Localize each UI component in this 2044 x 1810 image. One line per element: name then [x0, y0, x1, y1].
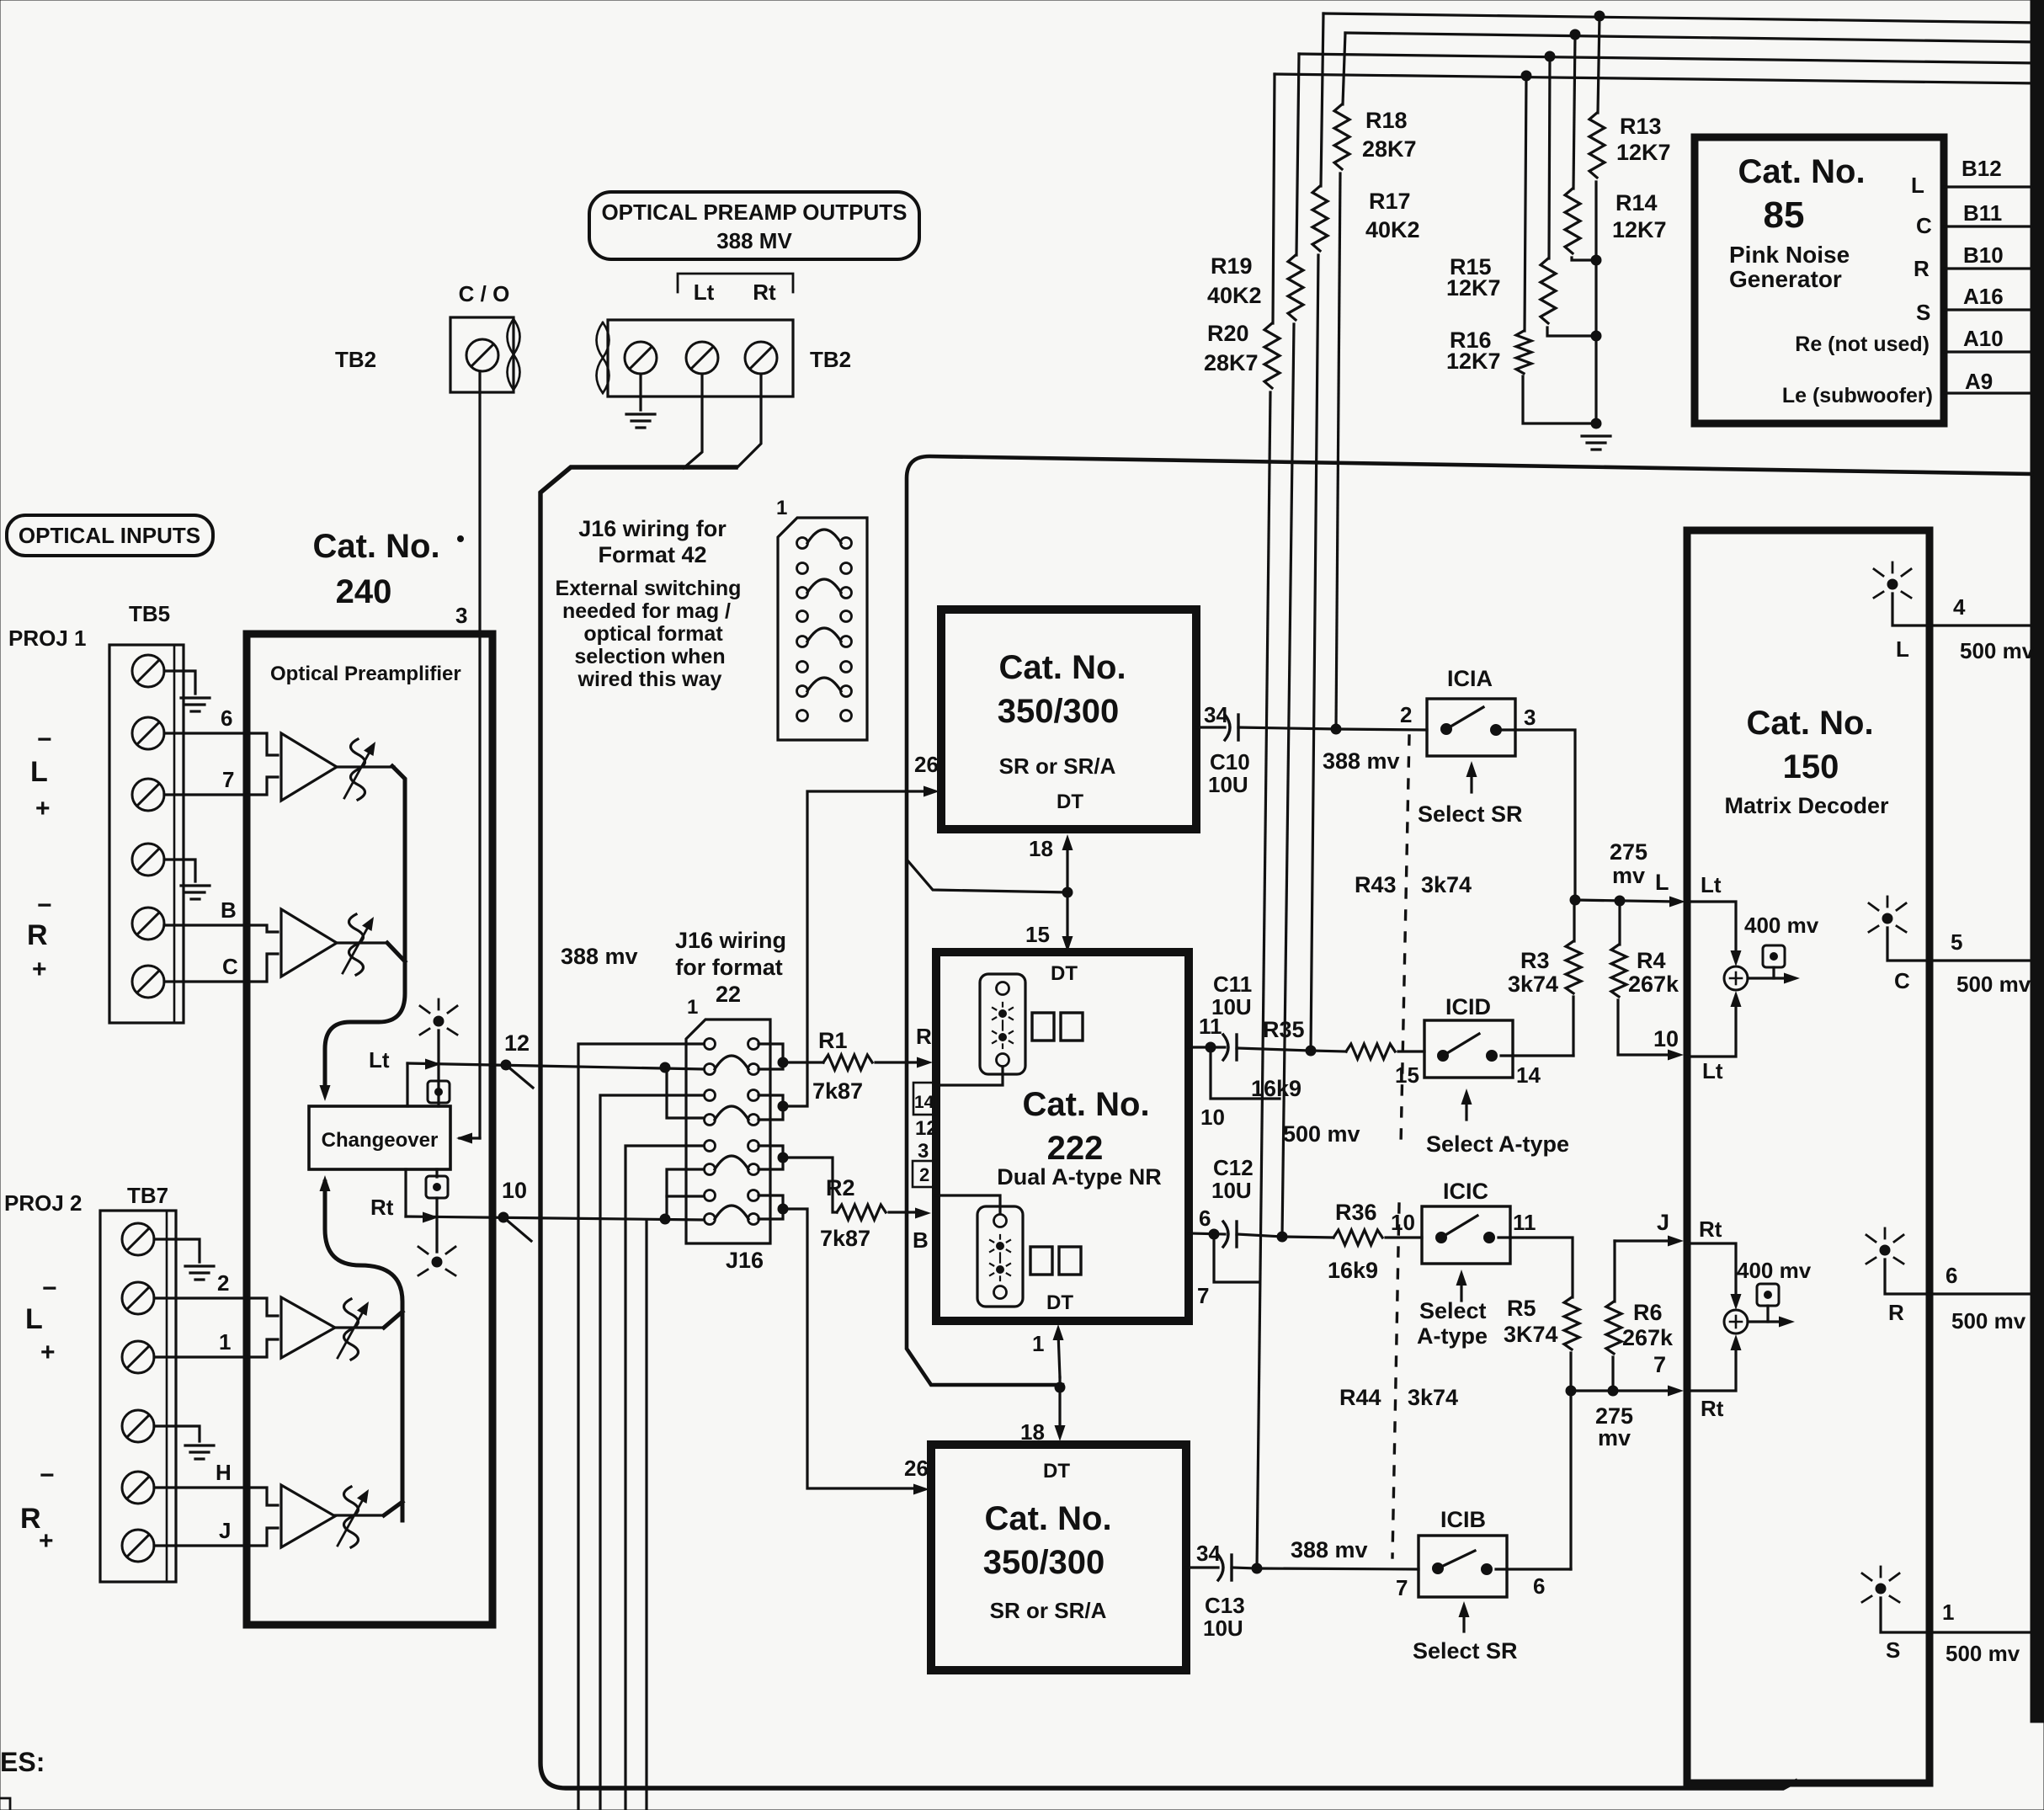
svg-text:Format 42: Format 42 [598, 542, 706, 567]
LED Lt changeover [434, 1016, 444, 1026]
wire B input internal [936, 1195, 1000, 1213]
connector J16-format42 pin row 4 [797, 611, 808, 622]
capacitor C12 [1223, 1222, 1228, 1247]
terminal screw TB5-3 [132, 779, 164, 811]
node J16 26b-net output [778, 1204, 788, 1214]
summing node Lt channel [1686, 902, 1736, 956]
svg-text:J16 wiring: J16 wiring [675, 928, 786, 953]
svg-text:R: R [1888, 1300, 1904, 1325]
wire TB7-3 pin1 [154, 1355, 247, 1358]
terminal screw TB5-2 [132, 717, 164, 749]
wire Lt node to Cat150 [1575, 900, 1675, 902]
LED output L [1887, 579, 1898, 589]
jumper arc J16 [715, 1156, 748, 1169]
svg-text:5: 5 [1951, 929, 1962, 955]
terminal screw TB7-1 [122, 1223, 154, 1255]
wire ICIC out down through R5 [1498, 1238, 1573, 1297]
svg-text:H: H [216, 1460, 232, 1485]
svg-text:12K7: 12K7 [1446, 349, 1501, 374]
wire J16 row3 left to vertical [600, 1095, 704, 1810]
wire TB7-5 pinH [154, 1486, 247, 1488]
wire Lt riser to row4 [667, 1067, 704, 1118]
node R5 bottom [1566, 1386, 1576, 1396]
svg-text:6: 6 [1533, 1573, 1545, 1599]
svg-text:500 mv: 500 mv [1960, 638, 2035, 663]
slide switch S1 [980, 974, 1025, 1074]
terminal screw TB5-1 [132, 655, 164, 687]
wire LED Rt stem [435, 1169, 438, 1177]
jumper arc J16-format42 [807, 678, 841, 691]
wire pin11 to C11 [1189, 1046, 1225, 1048]
svg-text:14: 14 [914, 1093, 934, 1112]
svg-text:R18: R18 [1365, 108, 1408, 133]
wire 26-net to top box [783, 791, 929, 1106]
resistor R14 [1565, 189, 1580, 253]
terminal screw TB7-5 [122, 1472, 154, 1504]
resistor R16 [1516, 331, 1531, 374]
svg-text:6: 6 [1946, 1263, 1957, 1288]
wire pin1-18 link [1053, 1324, 1064, 1340]
terminal screw TB5-5 [132, 908, 164, 940]
svg-text:ES:: ES: [0, 1747, 45, 1777]
svg-text:Matrix Decoder: Matrix Decoder [1724, 793, 1889, 818]
svg-text:388 mv: 388 mv [1323, 748, 1400, 774]
svg-text:Cat. No.: Cat. No. [998, 649, 1126, 686]
slide switch S2 [977, 1206, 1023, 1307]
svg-text:R19: R19 [1211, 253, 1253, 279]
ground pink-noise divider [1582, 434, 1610, 437]
svg-text:1: 1 [776, 497, 787, 519]
node 388mv bottom [1252, 1563, 1262, 1573]
wire A3 output to thick riser [384, 1312, 402, 1328]
LED output S [1876, 1584, 1886, 1594]
wire J16 right jogs rows5-6 [759, 1146, 783, 1158]
svg-text:−: − [37, 726, 52, 753]
wire C10 to 388mv node [1238, 727, 1336, 729]
connector J16 pin row 8 [705, 1214, 716, 1225]
wire ICIB riser to 275mv node [1569, 1391, 1572, 1569]
resistor R6 and J wire [1615, 1239, 1674, 1242]
wire J16 right jogs rows3-4 [759, 1095, 783, 1106]
svg-text:150: 150 [1783, 748, 1839, 785]
svg-text:Generator: Generator [1729, 266, 1842, 292]
jumper arc J16-format42 [807, 530, 841, 543]
node Lt-12 [501, 1060, 511, 1070]
svg-text:500 mv: 500 mv [1946, 1641, 2020, 1666]
jumper arc J16-format42 [807, 579, 841, 593]
wire C13 to ICIB [1232, 1568, 1257, 1568]
svg-text:26: 26 [904, 1456, 929, 1481]
svg-text:22: 22 [716, 982, 741, 1007]
node J16 R1 output [778, 1057, 788, 1067]
wire C11 to R35 [1237, 1048, 1311, 1051]
resistor R1 [783, 1061, 823, 1063]
block changeover [309, 1106, 450, 1169]
summing node Rt channel [1686, 1243, 1736, 1300]
resistor R15 [1541, 258, 1556, 323]
block U240 Optical Preamplifier outline [247, 634, 492, 1625]
connector J16-format42 pin row 2 [797, 563, 808, 574]
svg-text:388 MV: 388 MV [716, 228, 792, 253]
svg-text:1: 1 [219, 1329, 231, 1355]
svg-text:needed for mag /: needed for mag / [562, 599, 731, 623]
node R4 top [1615, 896, 1625, 906]
wire Lt diagonal to bus [506, 1065, 533, 1088]
svg-text:Lt: Lt [1702, 1058, 1723, 1083]
terminal screw TB2-gnd [625, 342, 657, 374]
svg-text:+: + [35, 795, 51, 822]
svg-text:OPTICAL PREAMP OUTPUTS: OPTICAL PREAMP OUTPUTS [601, 200, 907, 225]
svg-text:Dual A-type NR: Dual A-type NR [997, 1164, 1162, 1190]
wire A4 output to thick riser [384, 1502, 402, 1515]
svg-text:R5: R5 [1507, 1296, 1536, 1321]
connector J16-format42 pin row 7 [797, 686, 808, 697]
svg-text:10: 10 [1200, 1105, 1225, 1130]
svg-text:Select A-type: Select A-type [1426, 1131, 1569, 1157]
capacitor C11 [1223, 1035, 1228, 1060]
svg-text:ICIC: ICIC [1443, 1179, 1488, 1204]
terminal screw TB2-Rt [745, 342, 777, 374]
wire thick changeover to Proj2 [325, 1182, 402, 1520]
svg-text:R44: R44 [1339, 1385, 1381, 1410]
svg-text:R35: R35 [1263, 1017, 1305, 1042]
svg-text:500 mv: 500 mv [1283, 1121, 1360, 1147]
svg-text:C11: C11 [1213, 972, 1252, 997]
svg-text:B11: B11 [1963, 200, 2002, 226]
connector J16 pin row 6 [705, 1164, 716, 1175]
op-amp A2 (Proj1 R) [247, 925, 278, 932]
capacitor C13 [1218, 1555, 1223, 1580]
terminal screw TB7-2 [122, 1282, 154, 1314]
node pin1-18 junction [1055, 1382, 1065, 1392]
svg-text:1: 1 [1032, 1331, 1044, 1356]
node R14 bottom junction [1591, 255, 1601, 265]
resistor R20 [1264, 323, 1280, 388]
svg-text:R17: R17 [1369, 189, 1411, 214]
node C12 bus2 [1277, 1232, 1287, 1242]
LED output R [1880, 1245, 1890, 1255]
wire TB7-4 to ground [154, 1426, 200, 1441]
svg-text:7k87: 7k87 [820, 1226, 870, 1251]
svg-text:B: B [221, 897, 237, 923]
svg-text:mv: mv [1598, 1425, 1631, 1451]
svg-text:350/300: 350/300 [998, 693, 1120, 730]
svg-text:Changeover: Changeover [322, 1129, 439, 1152]
block U350a Cat. No. 350/300 (top) [941, 610, 1196, 829]
wire Rt riser rows 6-7 [667, 1169, 704, 1219]
svg-text:C: C [1894, 968, 1910, 993]
wire top bus 2 [1345, 33, 2041, 42]
wire R13 column vertical [1598, 16, 1600, 113]
wire Rt output [406, 1216, 704, 1220]
select A-type arrow ICID [1465, 1097, 1467, 1120]
wire bus diagonal to 18-15 [908, 860, 1067, 892]
svg-text:16k9: 16k9 [1328, 1258, 1378, 1283]
svg-text:350/300: 350/300 [983, 1544, 1105, 1581]
svg-text:TB7: TB7 [127, 1183, 168, 1208]
wire TB2 Lt down to bus [684, 374, 702, 468]
svg-text:PROJ 1: PROJ 1 [8, 626, 87, 651]
terminal block TB2 (preamp outputs) [608, 320, 793, 397]
wire thick Proj1 to changeover [325, 766, 405, 1089]
label box OPTICAL PREAMP OUTPUTS 388 MV [589, 192, 919, 259]
node R6 bottom [1608, 1386, 1618, 1396]
svg-text:Select: Select [1419, 1298, 1487, 1323]
svg-text:+: + [39, 1527, 54, 1555]
wire TB5-2 pin6 [164, 732, 247, 734]
node junction wire3-R15 column [1545, 51, 1555, 61]
resistor R19 [1288, 255, 1303, 320]
terminal block TB2 C/O [450, 317, 514, 392]
svg-text:3k74: 3k74 [1421, 872, 1472, 897]
svg-text:ICIA: ICIA [1447, 666, 1493, 691]
svg-text:3K74: 3K74 [1504, 1322, 1558, 1347]
svg-text:DT: DT [1043, 1460, 1070, 1483]
svg-text:R20: R20 [1207, 321, 1249, 346]
node R16 bottom junction [1591, 418, 1601, 429]
jumper arc J16-format42 [807, 628, 841, 641]
svg-text:222: 222 [1047, 1130, 1104, 1167]
svg-text:Lt: Lt [369, 1047, 390, 1073]
wire pin34 to C13 [1186, 1566, 1218, 1568]
svg-text:10: 10 [1653, 1026, 1679, 1051]
svg-text:J16: J16 [726, 1248, 764, 1273]
resistor R17 [1312, 186, 1328, 251]
wire sum L output [1748, 977, 1786, 979]
wire J16 row5 left to vertical [625, 1146, 704, 1810]
node junction wire1-R13 column [1594, 11, 1605, 21]
svg-text:mv: mv [1612, 863, 1645, 888]
svg-text:+: + [32, 956, 47, 983]
ground TB5-1 [181, 696, 210, 699]
svg-text:−: − [40, 1461, 55, 1489]
node Rt-10 [498, 1212, 508, 1222]
svg-text:3: 3 [918, 1140, 929, 1163]
svg-text:6: 6 [1199, 1206, 1211, 1231]
terminal screw TB7-6 [122, 1530, 154, 1562]
capacitor C10 [1225, 715, 1230, 740]
variable attenuator A4 [335, 1514, 384, 1516]
svg-text:External switching: External switching [556, 577, 742, 600]
wire top bus 3 [1299, 54, 2041, 63]
block U150 Cat. No. 150 Matrix Decoder [1687, 530, 1930, 1783]
wire TB5-1 to ground [164, 671, 195, 694]
svg-text:Rt: Rt [370, 1195, 394, 1220]
wire R16 branch [1525, 76, 1526, 331]
svg-text:3k74: 3k74 [1408, 1385, 1458, 1410]
svg-text:10U: 10U [1208, 772, 1248, 797]
svg-text:2: 2 [919, 1164, 929, 1185]
svg-text:+: + [40, 1339, 56, 1366]
terminal block TB5 [109, 645, 184, 1023]
node C11 bus3 [1306, 1046, 1316, 1056]
wire pin34 to C10 [1196, 726, 1225, 728]
node junction wire4-R16 column [1521, 71, 1531, 81]
variable attenuator A3 [335, 1326, 384, 1328]
svg-text:S: S [1916, 300, 1930, 325]
svg-text:Cat. No.: Cat. No. [1738, 153, 1865, 190]
resistor R3 [1573, 900, 1575, 941]
terminal screw TB7-4 [122, 1410, 154, 1442]
svg-text:Lt: Lt [694, 279, 715, 305]
wire C/O control line down to changeover [478, 371, 481, 1138]
svg-text:500 mv: 500 mv [1951, 1308, 2026, 1334]
wire sum R output [1748, 1320, 1781, 1323]
svg-text:DT: DT [1051, 962, 1078, 985]
svg-text:A-type: A-type [1417, 1323, 1488, 1349]
terminal screw TB7-3 [122, 1341, 154, 1373]
svg-text:12K7: 12K7 [1612, 217, 1667, 242]
svg-text:1: 1 [687, 996, 698, 1019]
wire ICIA out to Lt node [1501, 730, 1575, 900]
svg-text:Le (subwoofer): Le (subwoofer) [1782, 384, 1933, 407]
wire ICID out to R3 [1501, 1054, 1573, 1057]
svg-text:J: J [219, 1518, 231, 1543]
svg-text:40K2: 40K2 [1365, 217, 1420, 242]
wire TB5-6 pinC [164, 980, 247, 982]
svg-text:L: L [25, 1303, 43, 1335]
svg-text:C: C [222, 954, 238, 979]
op-amp A4 (Proj2 R) [247, 1488, 278, 1505]
svg-text:TB2: TB2 [810, 347, 851, 372]
connector J16 pin row 1 [705, 1039, 716, 1050]
select SR arrow ICIB [1462, 1610, 1465, 1632]
svg-text:C / O: C / O [459, 281, 510, 306]
connector J16-format42 body [778, 518, 867, 740]
svg-text:TB5: TB5 [129, 601, 170, 626]
svg-text:R: R [916, 1024, 932, 1049]
wire TB7-1 to ground [154, 1239, 200, 1262]
connector J16 pin row 2 [705, 1064, 716, 1075]
connector J16 pin row 4 [705, 1115, 716, 1126]
svg-text:240: 240 [336, 573, 392, 610]
svg-text:L: L [1911, 173, 1924, 198]
svg-text:12K7: 12K7 [1446, 275, 1501, 301]
ground TB7-1 [185, 1264, 214, 1267]
node 388mv top [1331, 724, 1341, 734]
op-amp A1 (Proj1 L) [247, 733, 278, 755]
svg-text:R2: R2 [826, 1175, 855, 1200]
svg-text:15: 15 [1025, 922, 1050, 947]
indicator squares S1 [1032, 1013, 1054, 1041]
resistor R4 [1618, 901, 1621, 945]
svg-text:2: 2 [217, 1270, 229, 1296]
connector J16 body [686, 1019, 770, 1243]
wire vertical bus D (wire4 down through R20 to C13) [1273, 74, 1275, 323]
svg-text:R1: R1 [818, 1028, 848, 1053]
svg-text:10: 10 [502, 1178, 527, 1203]
svg-text:R: R [1914, 256, 1930, 281]
svg-text:Re (not used): Re (not used) [1795, 333, 1930, 356]
svg-text:for format: for format [675, 955, 783, 980]
svg-text:400 mv: 400 mv [1737, 1258, 1812, 1283]
svg-text:40K2: 40K2 [1207, 283, 1262, 308]
wire TB5-3 pin7 [164, 793, 247, 796]
svg-text:−: − [42, 1275, 57, 1302]
select SR arrow ICIA [1470, 769, 1472, 792]
node J16 R2 output [778, 1153, 788, 1163]
node Lt after ICIA [1570, 895, 1580, 905]
svg-text:wired this way: wired this way [578, 668, 722, 691]
port square Rt [426, 1176, 448, 1198]
svg-text:C10: C10 [1210, 749, 1250, 775]
block U350b Cat. No. 350/300 (bottom) [931, 1445, 1186, 1670]
LED output C [1882, 913, 1892, 924]
svg-text:7: 7 [1653, 1352, 1666, 1377]
svg-text:SR or SR/A: SR or SR/A [999, 753, 1116, 779]
wire Rt diagonal to bus [503, 1217, 531, 1241]
connector J16-format42 pin row 1 [797, 538, 808, 549]
svg-text:SR or SR/A: SR or SR/A [990, 1598, 1107, 1623]
bracket over Lt Rt [678, 274, 793, 292]
svg-text:DT: DT [1057, 791, 1083, 813]
svg-text:267k: 267k [1622, 1325, 1674, 1350]
svg-text:15: 15 [1395, 1062, 1419, 1088]
node 18-15 junction [1062, 887, 1073, 897]
svg-text:B12: B12 [1961, 156, 2002, 181]
wire top bus 4 [1275, 74, 2041, 83]
svg-text:16k9: 16k9 [1251, 1076, 1301, 1101]
connector J16-format42 pin row 8 [797, 711, 808, 721]
label box OPTICAL INPUTS [7, 515, 213, 556]
jumper arc J16 [715, 1106, 748, 1120]
svg-text:−: − [37, 892, 52, 919]
svg-text:B10: B10 [1963, 242, 2004, 268]
wire vertical bus C (wire3 down through R19 to C12) [1296, 54, 1299, 255]
variable attenuator A2 [337, 941, 387, 944]
svg-text:J: J [1657, 1210, 1669, 1235]
wire R15 branch [1549, 56, 1550, 258]
jumper arc J16 [715, 1206, 748, 1219]
wire vertical bus B (wire2 down through R18 to C10) [1343, 33, 1345, 104]
wire pin6 to C12 [1189, 1233, 1225, 1234]
svg-text:18: 18 [1029, 836, 1053, 861]
svg-text:4: 4 [1953, 594, 1966, 620]
svg-text:C13: C13 [1205, 1593, 1245, 1618]
svg-text:12: 12 [504, 1030, 530, 1056]
jumper arc J16 [715, 1056, 748, 1069]
wire TB2 Rt down to bus [737, 374, 761, 467]
node Lt-J16 riser [660, 1062, 670, 1073]
svg-text:R43: R43 [1355, 872, 1397, 897]
wire TB7-2 pin2 [154, 1296, 247, 1299]
indicator squares S2 [1030, 1247, 1052, 1275]
svg-text:A9: A9 [1965, 369, 1993, 394]
ground TB5-4 [181, 884, 210, 886]
svg-text:R3: R3 [1520, 948, 1550, 973]
terminal screw TB2-Lt [686, 342, 718, 374]
node Rt-J16 riser [660, 1214, 670, 1224]
svg-text:Select SR: Select SR [1418, 801, 1523, 827]
svg-text:11: 11 [1513, 1210, 1536, 1235]
svg-text:PROJ 2: PROJ 2 [4, 1190, 83, 1216]
resistor R5 [1564, 1297, 1579, 1350]
svg-text:10U: 10U [1203, 1616, 1243, 1641]
svg-text:R: R [27, 919, 48, 951]
terminal screw TB5-4 [132, 844, 164, 876]
stray mark [458, 536, 464, 542]
resistor R44 dashed select line [1392, 1204, 1399, 1557]
terminal screw C/O [466, 339, 498, 371]
svg-text:selection when: selection when [574, 645, 725, 668]
pin box 14 [913, 1083, 936, 1115]
wire pin10 link [1211, 1047, 1280, 1099]
svg-text:R6: R6 [1633, 1300, 1663, 1325]
svg-text:10U: 10U [1211, 1178, 1252, 1203]
wire thick bus right: long line right + vertical down to Cat222 pin18 [907, 456, 2031, 1385]
block U222 Cat. No. 222 Dual A-type NR [936, 952, 1189, 1321]
wire R14 branch [1573, 35, 1575, 189]
